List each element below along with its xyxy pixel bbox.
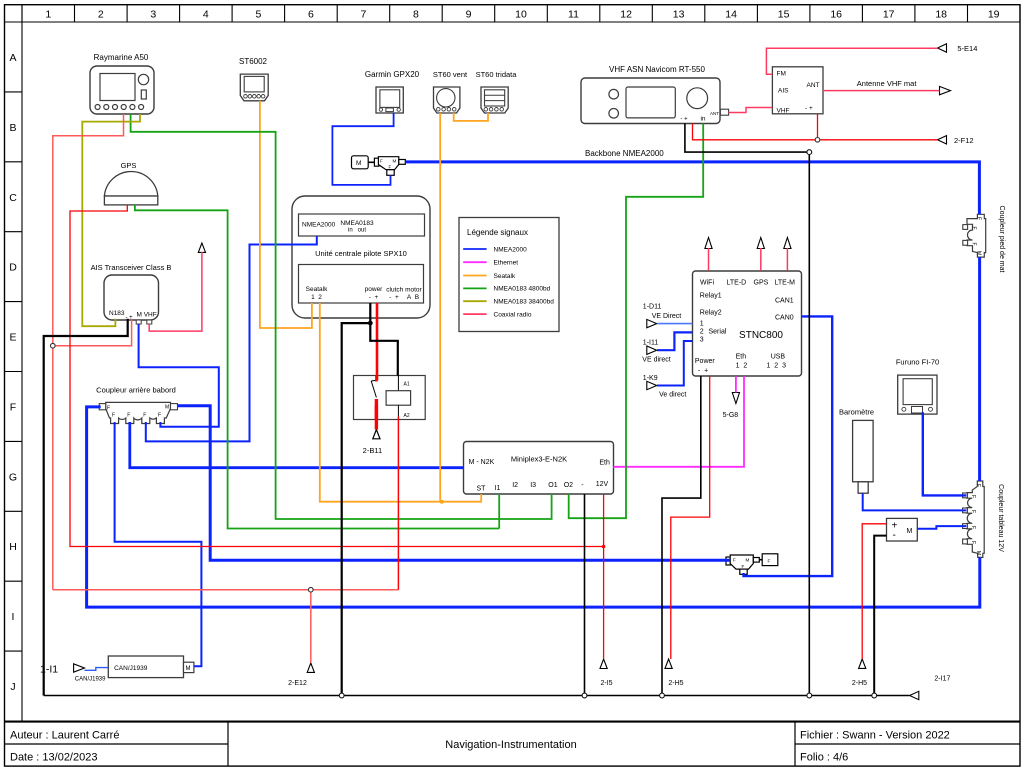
grid header row line <box>5 21 1021 23</box>
svg-text:F: F <box>970 495 976 498</box>
title block <box>5 722 1021 766</box>
svg-text:M: M <box>976 251 982 255</box>
svg-text:15: 15 <box>778 9 790 21</box>
connector right M coupler <box>171 404 178 410</box>
svg-text:Relay2: Relay2 <box>700 310 722 317</box>
svg-text:4: 4 <box>203 9 209 21</box>
svg-text:1: 1 <box>700 321 704 328</box>
svg-text:- +: - + <box>805 105 813 112</box>
device Coupleur pied de mat <box>967 214 986 257</box>
svg-text:- +: - + <box>698 368 708 375</box>
svg-text:C: C <box>9 192 17 204</box>
wire SPX10 NMEA2000 to coupler F3 <box>146 236 317 441</box>
wire coupler right M to blue bus to tee2 <box>177 406 730 561</box>
junction node 2-E12 <box>309 587 314 592</box>
svg-text:I2: I2 <box>512 482 518 489</box>
arrow 2-I5 <box>600 659 607 668</box>
svg-text:2-I5: 2-I5 <box>600 680 612 687</box>
wire AIS power + to node <box>53 319 132 346</box>
svg-text:Légende signaux: Légende signaux <box>467 228 528 237</box>
svg-text:F: F <box>733 558 736 563</box>
wire Miniplex I1 stub <box>498 494 500 529</box>
svg-text:1-D11: 1-D11 <box>643 303 662 310</box>
device AIS Transceiver Class B <box>104 275 159 324</box>
device battery supply <box>887 518 918 541</box>
wire STNC800 power minus drop <box>662 376 701 695</box>
svg-text:Relay1: Relay1 <box>700 293 722 300</box>
svg-text:Raymarine A50: Raymarine A50 <box>94 53 149 62</box>
svg-text:E: E <box>9 332 16 344</box>
svg-text:Seatalk: Seatalk <box>306 286 328 293</box>
junction node ground bus <box>807 693 812 698</box>
wire 1-I11 VE direct to STNC800 serial 2 <box>657 332 692 350</box>
pin labels splitter <box>777 71 820 115</box>
svg-text:A1: A1 <box>404 382 410 388</box>
junction node 12V <box>602 545 606 549</box>
svg-text:J: J <box>10 681 15 693</box>
wire coupler F1 to CAN/J1939 gateway <box>115 422 202 666</box>
wire coupler F2 to Miniplex M-N2K <box>130 422 464 468</box>
wire AIS minus to bottom bus <box>44 319 128 696</box>
svg-text:2: 2 <box>98 9 104 21</box>
wire SPX10 minus branch to bottom bus <box>342 323 371 695</box>
junction node splitter plus <box>815 138 820 143</box>
wire STNC800 power plus to 2-H5 <box>671 376 710 659</box>
wire battery plus to 2-H5 <box>862 524 886 659</box>
link tee2 to F box <box>759 559 762 561</box>
svg-text:NMEA2000: NMEA2000 <box>494 246 528 253</box>
svg-text:Date : 13/02/2023: Date : 13/02/2023 <box>10 752 97 764</box>
svg-text:- +: - + <box>369 294 379 301</box>
wire GPS power red to Miniplex 12V node <box>70 205 604 547</box>
junction node RT-550 minus <box>807 150 812 155</box>
svg-text:F: F <box>976 217 982 220</box>
svg-text:I3: I3 <box>530 482 536 489</box>
legend item NMEA0183 4800bd <box>463 287 486 289</box>
svg-text:F: F <box>970 526 976 529</box>
device Raymarine A50 <box>90 66 154 114</box>
svg-text:12V: 12V <box>596 481 609 488</box>
arrow 5-G8 ethernet <box>732 393 739 404</box>
svg-text:F: F <box>10 402 16 414</box>
column numbers <box>45 9 999 21</box>
legend item Seatalk <box>463 275 486 277</box>
device Coupleur arriere babord <box>106 402 171 423</box>
svg-text:VHF ASN Navicom RT-550: VHF ASN Navicom RT-550 <box>609 65 705 74</box>
svg-text:9: 9 <box>466 9 472 21</box>
svg-text:Ethernet: Ethernet <box>494 260 519 267</box>
wire STNC800 Eth2 to Miniplex Eth <box>613 376 744 467</box>
svg-text:13: 13 <box>673 9 685 21</box>
device Furuno FI-70 <box>898 375 937 414</box>
legend item Ethernet <box>463 261 486 263</box>
connector tee1 NMEA2000 <box>374 157 405 176</box>
wire ST6002 to SPX10 Seatalk1 <box>260 101 312 328</box>
svg-text:1: 1 <box>45 9 51 21</box>
svg-text:A: A <box>9 52 16 64</box>
relay red inner <box>375 399 378 420</box>
svg-text:F: F <box>970 510 976 513</box>
junction seatalk node <box>440 500 444 504</box>
device Coupleur tableau 12V <box>967 481 984 557</box>
svg-text:2-F12: 2-F12 <box>954 136 974 145</box>
wire backbone mast coupler to panel coupler <box>978 257 981 481</box>
svg-text:NMEA2000: NMEA2000 <box>302 222 336 229</box>
relay coil <box>386 391 411 406</box>
svg-text:2-E12: 2-E12 <box>288 680 307 687</box>
wire Barometre to panel coupler F2 <box>863 493 967 510</box>
svg-text:5: 5 <box>255 9 261 21</box>
wire SPX10 power plus to relay <box>376 303 379 380</box>
svg-text:Power: Power <box>695 358 716 365</box>
svg-text:I: I <box>12 611 15 623</box>
wire SPX10 power minus to relay A1 <box>370 303 398 376</box>
relay coil wire A1 <box>397 376 399 391</box>
svg-text:18: 18 <box>935 9 947 21</box>
svg-text:AIS Transceiver Class B: AIS Transceiver Class B <box>91 263 172 272</box>
connector M CAN gateway <box>184 662 194 672</box>
device Unite centrale pilote SPX10 <box>292 196 430 318</box>
svg-text:in: in <box>700 116 705 123</box>
svg-text:1-I11: 1-I11 <box>643 340 659 347</box>
svg-text:Baromètre: Baromètre <box>839 408 874 417</box>
svg-text:Miniplex3-E-N2K: Miniplex3-E-N2K <box>511 455 567 464</box>
svg-text:ST60 tridata: ST60 tridata <box>476 70 518 79</box>
arrow STNC800 antenna <box>757 238 764 249</box>
svg-text:1-K9: 1-K9 <box>643 375 658 382</box>
svg-text:VE Direct: VE Direct <box>652 313 682 320</box>
svg-text:F: F <box>742 564 745 569</box>
svg-text:B: B <box>9 122 16 134</box>
wire Miniplex 12V to 2-I5 <box>603 494 605 659</box>
junction node AIS plus <box>51 343 56 348</box>
svg-text:8: 8 <box>413 9 419 21</box>
wire node branch to 2-E12 <box>310 590 312 663</box>
arrow 2-H5 battery <box>859 659 866 668</box>
svg-text:Ve direct: Ve direct <box>659 391 686 398</box>
svg-text:M: M <box>356 160 361 167</box>
svg-text:power: power <box>365 286 384 293</box>
wire splitter plus to RT-550 plus and 2-F12 <box>693 114 938 140</box>
svg-text:VE direct: VE direct <box>642 356 670 363</box>
wire splitter FM to 5-E14 <box>766 48 937 74</box>
device ST60 vent <box>434 87 460 113</box>
wire SPX10 Seatalk2 to Miniplex ST <box>320 303 481 502</box>
svg-text:2-I17: 2-I17 <box>934 676 950 683</box>
device antenna splitter <box>772 67 823 114</box>
svg-text:O2: O2 <box>564 482 573 489</box>
device STNC800 <box>693 271 802 376</box>
svg-text:3: 3 <box>700 337 704 344</box>
svg-text:Unité centrale pilote SPX10: Unité centrale pilote SPX10 <box>315 249 407 258</box>
svg-text:ANT: ANT <box>710 111 719 116</box>
svg-text:in out: in out <box>348 228 366 234</box>
wire RT-550 in to Miniplex O2 <box>569 123 704 518</box>
relay coil wire A2 <box>397 405 399 416</box>
wire Furuno FI-70 to panel coupler F1 <box>923 412 967 495</box>
svg-text:ST60 vent: ST60 vent <box>433 70 468 79</box>
svg-text:A B: A B <box>407 294 419 301</box>
title texts <box>10 730 950 764</box>
device Garmin GPX20 <box>376 87 403 113</box>
arrow 2-I17 <box>910 691 919 699</box>
svg-text:FM: FM <box>777 71 786 78</box>
svg-text:Antenne VHF mat: Antenne VHF mat <box>857 79 918 88</box>
svg-text:F: F <box>112 413 115 419</box>
svg-text:16: 16 <box>830 9 842 21</box>
wire STNC800 WiFi antenna <box>708 248 710 271</box>
arrow 2-B11 <box>373 430 380 439</box>
arrow STNC800 antenna <box>705 238 712 249</box>
device relay <box>354 376 426 420</box>
svg-text:Eth: Eth <box>599 460 610 467</box>
svg-text:M: M <box>393 159 397 164</box>
svg-text:NMEA0183 38400bd: NMEA0183 38400bd <box>494 299 555 306</box>
svg-text:NMEA0183 4800bd: NMEA0183 4800bd <box>494 286 551 293</box>
wire Raymarine A50 down-left drop <box>53 114 124 590</box>
svg-text:WiFi: WiFi <box>700 280 714 287</box>
arrow 5-E14 <box>938 44 947 52</box>
arrow Antenne VHF mat <box>940 86 951 94</box>
svg-text:CAN0: CAN0 <box>775 315 794 322</box>
svg-text:14: 14 <box>725 9 737 21</box>
wire splitter ANT to Antenne VHF mat <box>823 90 940 92</box>
device CAN/J1939 gateway <box>108 656 183 678</box>
svg-text:ANT: ANT <box>807 82 820 89</box>
arrow serial source <box>647 319 657 327</box>
svg-text:2: 2 <box>700 329 704 336</box>
device ST6002 <box>240 74 268 101</box>
wire STNC800 GPS antenna <box>760 248 762 271</box>
wire battery M to panel coupler F3 <box>917 526 966 529</box>
svg-text:- +: - + <box>680 117 688 123</box>
svg-text:LTE-M: LTE-M <box>775 280 796 287</box>
svg-text:F: F <box>768 559 771 564</box>
link M box to tee1 <box>368 161 378 163</box>
svg-text:D: D <box>9 262 17 274</box>
device VHF ASN Navicom RT-550 <box>581 78 729 124</box>
svg-text:M: M <box>907 528 913 535</box>
wire GPS NMEA0183 to Miniplex I1 <box>135 205 499 529</box>
wire Miniplex minus drop <box>584 494 586 696</box>
svg-text:Backbone NMEA2000: Backbone NMEA2000 <box>585 149 664 158</box>
wire coupler left F to blue bus to panel coupler M <box>87 407 980 607</box>
junction dot SPX10 minus <box>368 321 373 326</box>
wire node to relay A2 horizontal <box>53 589 399 591</box>
legend item NMEA2000 <box>463 248 486 250</box>
svg-text:F: F <box>380 159 383 164</box>
svg-text:M - N2K: M - N2K <box>469 459 495 466</box>
svg-text:A2: A2 <box>404 413 410 419</box>
arrow AIS mast antenna <box>198 243 205 252</box>
svg-text:O1: O1 <box>548 482 557 489</box>
svg-text:1 2: 1 2 <box>311 294 322 301</box>
wire ST60 vent to ST60 tridata <box>454 113 488 121</box>
svg-text:Navigation-Instrumentation: Navigation-Instrumentation <box>445 739 576 751</box>
svg-text:3: 3 <box>150 9 156 21</box>
svg-text:2-H5: 2-H5 <box>852 680 867 687</box>
svg-text:Coupleur arrière babord: Coupleur arrière babord <box>96 386 176 395</box>
junction node ground bus <box>872 693 877 698</box>
svg-text:Furuno FI-70: Furuno FI-70 <box>896 358 939 367</box>
wire 1-K9 Ve direct to STNC800 serial 3 <box>657 341 692 386</box>
svg-text:M: M <box>186 666 191 672</box>
svg-text:F: F <box>970 541 976 544</box>
arrow 2-F12 <box>938 136 947 144</box>
connector left F coupler <box>99 404 106 410</box>
wire Garmin GPX20 to NMEA2000 tee <box>332 113 393 185</box>
header column ticks <box>22 5 1020 22</box>
svg-text:Folio : 4/6: Folio : 4/6 <box>800 752 848 764</box>
svg-text:Eth: Eth <box>736 354 747 361</box>
svg-text:- +: - + <box>389 294 399 301</box>
connector F box <box>762 554 778 566</box>
svg-text:clutch motor: clutch motor <box>386 287 422 294</box>
arrow 2-H5 STNC <box>665 659 672 668</box>
svg-text:11: 11 <box>568 9 579 21</box>
junction node ground bus <box>339 693 344 698</box>
connector tee2 NMEA2000 <box>726 555 759 574</box>
wire RT-550 minus to splitter minus drop <box>685 123 809 695</box>
svg-text:M: M <box>746 558 750 563</box>
svg-text:Auteur : Laurent Carré: Auteur : Laurent Carré <box>10 730 119 742</box>
svg-text:LTE-D: LTE-D <box>727 280 747 287</box>
wire Backbone NMEA2000 trunk <box>405 162 979 214</box>
svg-text:1 2: 1 2 <box>736 363 748 370</box>
svg-text:GPS: GPS <box>121 161 137 170</box>
svg-text:F: F <box>143 413 146 419</box>
wire AIS M to coupler F4 <box>139 324 219 427</box>
svg-text:VHF: VHF <box>777 108 790 115</box>
svg-text:GPS: GPS <box>754 280 769 287</box>
svg-text:Seatalk: Seatalk <box>494 273 516 280</box>
svg-text:19: 19 <box>988 9 1000 21</box>
svg-text:M: M <box>975 551 981 555</box>
device Barometre <box>853 420 874 493</box>
wire STNC800 Eth1 to 5-G8 <box>735 376 737 392</box>
svg-text:M: M <box>165 405 169 411</box>
wire STNC800 LTE-M antenna <box>786 248 788 271</box>
svg-text:Serial: Serial <box>709 329 727 336</box>
svg-text:N183: N183 <box>109 310 125 317</box>
svg-text:F: F <box>971 227 977 230</box>
arrow CAN/J1939 source <box>74 664 85 672</box>
svg-text:AIS: AIS <box>778 88 789 95</box>
svg-text:CAN/J1939: CAN/J1939 <box>114 665 148 672</box>
svg-text:6: 6 <box>308 9 314 21</box>
wire relay A2 drop <box>397 416 399 589</box>
wire AIS VHF to mast antenna <box>149 252 202 331</box>
wire ST60 vent seatalk drop <box>439 113 441 502</box>
svg-text:G: G <box>9 471 17 483</box>
svg-text:ST6002: ST6002 <box>239 57 268 66</box>
svg-text:5-G8: 5-G8 <box>723 412 739 419</box>
wire arrow to CAN gateway <box>85 668 109 671</box>
svg-text:10: 10 <box>515 9 527 21</box>
svg-text:17: 17 <box>883 9 895 21</box>
relay switch contact red top <box>375 376 378 382</box>
junction node ground bus <box>582 693 587 698</box>
wire 1-D11 VE Direct to STNC800 serial 1 <box>657 323 692 325</box>
arrow 2-E12 <box>307 663 314 672</box>
wire battery minus drop <box>874 536 886 696</box>
svg-text:Coaxial radio: Coaxial radio <box>494 311 532 318</box>
svg-text:M VHF: M VHF <box>137 312 157 319</box>
legend box <box>459 218 559 332</box>
arrow serial source <box>647 381 657 389</box>
wire relay output to 2-B11 <box>375 406 378 430</box>
arrow STNC800 antenna <box>784 238 791 249</box>
svg-text:Garmin GPX20: Garmin GPX20 <box>365 70 420 79</box>
svg-text:5-E14: 5-E14 <box>957 44 977 53</box>
svg-text:F: F <box>389 165 392 170</box>
svg-text:H: H <box>9 541 17 553</box>
connector M box tee1 <box>352 156 369 169</box>
svg-text:USB: USB <box>771 354 786 361</box>
wire bottom ground bus to 2-I17 <box>44 695 910 697</box>
svg-text:Coupleur tableau 12V: Coupleur tableau 12V <box>997 484 1004 552</box>
svg-text:-: - <box>893 530 896 541</box>
device Miniplex3-E-N2K <box>464 442 614 495</box>
svg-text:CAN/J1939: CAN/J1939 <box>75 677 106 683</box>
relay switch blade <box>371 379 376 382</box>
wire RT-550 ANT to splitter VHF <box>729 108 773 113</box>
svg-text:2-B11: 2-B11 <box>363 446 382 455</box>
svg-text:Coupleur pied de mat: Coupleur pied de mat <box>998 206 1005 273</box>
svg-text:7: 7 <box>360 9 366 21</box>
wire Raymarine A50 NMEA0183 to Miniplex O1 <box>131 114 552 519</box>
legend item Coaxial radio <box>463 313 486 315</box>
svg-text:12: 12 <box>620 9 632 21</box>
grid letter strip line <box>21 5 23 721</box>
svg-text:ST: ST <box>477 486 487 493</box>
wire STNC800 CAN0 to tee2 <box>744 316 833 576</box>
svg-text:Fichier : Swann - Version 2022: Fichier : Swann - Version 2022 <box>800 730 950 742</box>
svg-text:2-H5: 2-H5 <box>668 680 683 687</box>
svg-text:CAN1: CAN1 <box>775 298 794 305</box>
svg-text:STNC800: STNC800 <box>739 330 783 341</box>
device ST60 tridata <box>481 87 508 113</box>
arrow serial source <box>647 346 657 354</box>
svg-text:F: F <box>975 484 981 487</box>
wire Raymarine A50 38400bd to AIS N183 <box>82 114 140 326</box>
svg-text:F: F <box>158 413 161 419</box>
svg-text:F: F <box>127 413 130 419</box>
device GPS antenna <box>104 172 157 205</box>
legend item NMEA0183 38400bd <box>463 300 486 302</box>
svg-text:F: F <box>107 406 110 412</box>
junction node ground bus <box>660 693 665 698</box>
svg-text:1 2 3: 1 2 3 <box>767 363 787 370</box>
svg-text:I1: I1 <box>495 485 501 492</box>
row letters <box>9 52 17 693</box>
svg-text:F: F <box>971 243 977 246</box>
svg-text:NMEA0183: NMEA0183 <box>340 220 374 227</box>
